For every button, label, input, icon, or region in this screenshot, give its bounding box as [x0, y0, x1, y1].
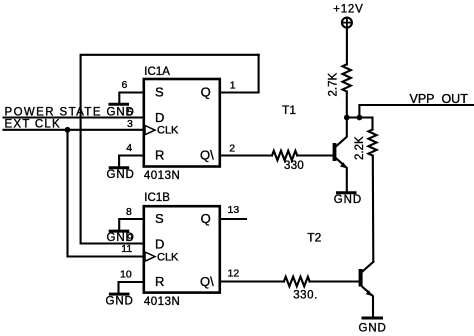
pin number 1 [230, 80, 236, 92]
svg-text:IC1A: IC1A [144, 66, 170, 78]
label 2.2K [354, 136, 366, 160]
label VPP OUT [410, 92, 469, 106]
label T2 [307, 231, 321, 245]
svg-text:5: 5 [127, 107, 133, 119]
svg-text:4013N: 4013N [144, 170, 180, 182]
wire pin 1 Q of IC1A [220, 55, 259, 93]
power supply symbol +12V [342, 18, 352, 28]
flip-flop IC1A body [144, 79, 220, 167]
wire EXT CLK down to pin 11 CLK of IC1B [68, 130, 144, 257]
svg-text:VPP OUT: VPP OUT [410, 92, 469, 106]
transistor T1 [333, 118, 347, 193]
svg-text:2.2K: 2.2K [354, 136, 366, 160]
label 4013N of IC1A [144, 170, 180, 182]
label GND of T1 [334, 194, 362, 206]
label 2.7K [328, 73, 340, 97]
wire 2.7K to node [346, 92, 348, 118]
svg-text:+12V: +12V [333, 3, 363, 15]
svg-text:330: 330 [284, 160, 304, 172]
svg-text:GND: GND [107, 169, 135, 181]
wire 330. to T2 base [310, 280, 359, 282]
svg-text:CLK: CLK [157, 124, 179, 136]
pin number 10 [120, 269, 132, 281]
svg-text:GND: GND [106, 295, 134, 307]
svg-text:10: 10 [120, 269, 132, 281]
ground bar at pin 4 [109, 166, 130, 169]
node junction dot A [344, 115, 350, 121]
wire POWER STATE to pin 5 D of IC1A [4, 116, 144, 118]
svg-text:12: 12 [228, 268, 240, 280]
svg-text:3: 3 [127, 118, 133, 130]
wire node A to node B to 2.2K [347, 118, 373, 130]
label GND of T2 [359, 322, 387, 334]
wire +12V to R 2.7K [346, 28, 348, 64]
ground bar of T2 [362, 317, 384, 320]
pin number 12 [228, 268, 240, 280]
node junction dot B [357, 115, 363, 121]
svg-text:13: 13 [228, 204, 240, 216]
ground bar at pin 10 [109, 293, 130, 296]
svg-text:8: 8 [126, 206, 132, 218]
resistor 2.2K [368, 130, 376, 156]
svg-text:GND: GND [334, 194, 362, 206]
resistor 330 [272, 151, 297, 161]
svg-text:EXT CLK: EXT CLK [5, 119, 61, 131]
wire pin 12 Q\ of IC1B to resistor 330. [220, 280, 284, 282]
label GND at pin 4 [107, 169, 135, 181]
resistor 330. [284, 277, 310, 287]
label GND at pin 10 [106, 295, 134, 307]
wire 330 to T1 base [297, 154, 332, 156]
ground bar at pin 8 [109, 230, 130, 233]
svg-text:S: S [155, 211, 164, 226]
wire pin 13 Q of IC1B stub [220, 218, 246, 220]
flip-flop IC1B label [144, 192, 170, 204]
svg-text:6: 6 [122, 79, 128, 91]
svg-text:D: D [155, 236, 164, 251]
svg-text:2: 2 [229, 142, 235, 154]
wire pin 6 S of IC1A to ground [119, 93, 144, 104]
svg-text:R: R [155, 274, 164, 289]
ground bar at pin 6 [109, 103, 130, 106]
svg-text:4013N: 4013N [144, 296, 180, 308]
svg-text:2.7K: 2.7K [328, 73, 340, 97]
svg-text:T1: T1 [282, 103, 296, 117]
wire pin 10 R of IC1B to ground [119, 282, 144, 293]
pin number 5 [127, 107, 133, 119]
svg-text:CLK: CLK [157, 251, 179, 263]
svg-text:Q\: Q\ [200, 147, 214, 162]
pin number 11 [121, 243, 132, 255]
svg-text:1: 1 [230, 80, 236, 92]
flip-flop IC1A label [144, 66, 170, 78]
ground bar of T1 [336, 191, 357, 194]
label GND at pin 8 [107, 232, 135, 244]
label POWER STATE [5, 106, 102, 118]
svg-text:330.: 330. [293, 290, 318, 302]
resistor 2.7K [343, 64, 351, 91]
junction dot on EXT CLK [65, 127, 71, 133]
pin number 6 [122, 79, 128, 91]
label 330 [284, 160, 304, 172]
svg-text:Q: Q [201, 211, 211, 226]
label 4013N of IC1B [144, 296, 180, 308]
wire 2.2K to T2 collector [372, 156, 375, 262]
pin number 13 [228, 204, 240, 216]
wire pin 8 S of IC1B to ground [119, 219, 144, 230]
pin number 2 [229, 142, 235, 154]
svg-text:S: S [155, 85, 164, 100]
label T1 [282, 103, 296, 117]
wire node B up to VPP OUT line [359, 105, 474, 118]
label GND at pin 6 [107, 106, 135, 118]
label 330. [293, 290, 318, 302]
svg-text:T2: T2 [307, 231, 321, 245]
wire pin 2 Q\ of IC1A to resistor 330 [220, 154, 272, 156]
power +12V label [333, 3, 363, 15]
pin number 9 [127, 232, 133, 244]
wire feedback top [81, 55, 259, 244]
label EXT CLK [5, 119, 61, 131]
svg-text:4: 4 [126, 142, 132, 154]
svg-text:Q\: Q\ [200, 274, 214, 289]
pin number 3 [127, 118, 133, 130]
svg-text:R: R [155, 148, 164, 163]
transistor T2 [359, 262, 374, 317]
svg-text:Q: Q [201, 84, 211, 99]
pin number 4 [126, 142, 132, 154]
svg-text:GND: GND [359, 322, 387, 334]
wire EXT CLK to pin 3 CLK of IC1A [4, 129, 144, 131]
svg-text:D: D [155, 110, 164, 125]
pin number 8 [126, 206, 132, 218]
svg-text:11: 11 [121, 243, 132, 255]
wire pin 4 R of IC1A to ground [119, 156, 144, 167]
svg-text:IC1B: IC1B [144, 192, 170, 204]
flip-flop IC1B body [144, 206, 220, 292]
